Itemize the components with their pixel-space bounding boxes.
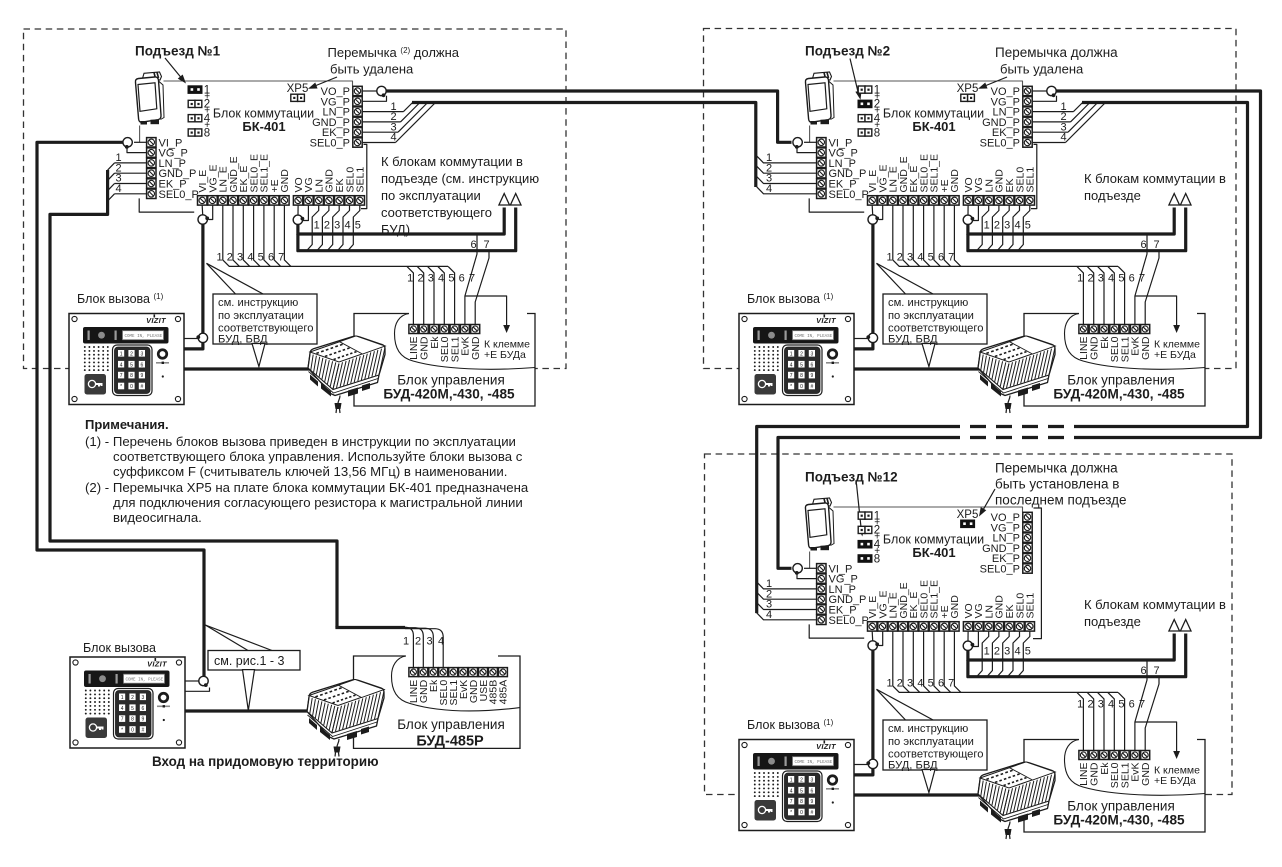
svg-text:4: 4 [766,609,772,621]
svg-text:5: 5 [1118,273,1124,285]
svg-text:SEL0_P: SEL0_P [980,564,1020,576]
node coax at call panel entrance 2 [854,333,878,342]
svg-text:5: 5 [258,252,264,264]
svg-text:6: 6 [470,239,476,251]
wire video trunk entrance2-to-entrance12 with break [1052,91,1261,438]
svg-text:быть удалена: быть удалена [330,62,414,77]
svg-text:по эксплуатации: по эксплуатации [888,736,974,748]
callout see-instruction entrance 2 [877,263,988,366]
svg-text:5: 5 [928,678,934,690]
wire 6 BUD EvK to riser entrance 12 [1135,660,1147,751]
jumper J4 entrance 2 (open) [858,115,872,122]
svg-text:Блок управления: Блок управления [397,373,505,388]
svg-text:4: 4 [247,252,253,264]
svg-text:ХР5: ХР5 [287,83,309,95]
node coax VI_E entrance 2 [868,206,883,225]
svg-text:+Е БУДа: +Е БУДа [484,349,526,361]
svg-text:по эксплуатации: по эксплуатации [381,188,481,203]
svg-text:SEL0_P: SEL0_P [159,189,199,201]
svg-text:5: 5 [448,273,454,285]
arrow riser video entrance 2 [1169,194,1180,206]
svg-text:3: 3 [334,219,340,231]
svg-text:1: 1 [217,252,223,264]
jumper J1 entrance 2 (open) [858,86,872,93]
terminal strip E entrance 12 [867,580,961,631]
node coax VI_P entrance 2 [793,138,816,153]
svg-text:ХР5: ХР5 [957,83,979,95]
svg-text:4: 4 [917,252,923,264]
box BUD-420M entrance 1 [354,314,535,407]
svg-text:Блок управления: Блок управления [397,717,505,732]
wires into BUD terminals entrance 1 [407,266,475,324]
svg-text:SEL0_P: SEL0_P [310,138,350,150]
svg-text:+Е БУДа: +Е БУДа [1154,349,1196,361]
svg-text:БУД-485Р: БУД-485Р [416,734,484,750]
svg-text:4: 4 [1014,219,1020,231]
svg-text:GND: GND [470,336,482,360]
terminal strip floors-out entrance 2 [963,167,1037,205]
svg-text:Перемычка (2) должна: Перемычка (2) должна [328,45,460,60]
svg-text:1: 1 [984,645,990,657]
svg-text:2: 2 [897,252,903,264]
arrow Podezd-to-jumper entrance 12 [857,484,862,532]
svg-text:GND: GND [949,595,961,619]
bracket strip link left entrance 12 [809,624,864,638]
wire camera down-lead entrance 2 [809,126,811,143]
callout see-instruction entrance 1 [207,263,318,366]
svg-text:3: 3 [1098,699,1104,711]
svg-text:2: 2 [417,273,423,285]
svg-text:4: 4 [438,636,444,648]
svg-text:по эксплуатации: по эксплуатации [888,310,974,322]
svg-text:подъезде: подъезде [1084,614,1141,629]
wire bus horizontal to BUD-485P [335,626,405,629]
svg-text:1: 1 [407,273,413,285]
wire camera down-lead entrance 1 [139,126,141,143]
svg-text:485A: 485A [498,680,510,705]
call panel (blok vyzova) entrance 2 [739,314,854,405]
svg-text:3: 3 [907,678,913,690]
jumper J1 entrance 12 (open) [858,512,872,519]
svg-text:БК-401: БК-401 [912,545,955,560]
jumper XP5 entrance 1 (open) [291,94,305,101]
svg-text:К блокам коммутации в: К блокам коммутации в [1084,171,1226,186]
svg-text:2: 2 [994,219,1000,231]
wire strip-E node to call panel entrance 2 [854,224,873,349]
svg-text:БУД-420М,-430, -485: БУД-420М,-430, -485 [383,387,515,402]
wires 1-5 floors bus entrance 2 [977,206,1031,251]
terminal strip BUD entrance 12 [1078,751,1152,789]
node coax at street call panel [185,676,210,691]
wire bus trunk entrance2-to-entrance12 with break [1082,103,1248,427]
svg-text:7: 7 [483,239,489,251]
svg-text:4: 4 [438,273,444,285]
svg-text:+Е БУДа: +Е БУДа [1154,775,1196,787]
wire camera-to-VO_P entrance 2 [834,81,1023,86]
wire call-panel to BUD entrance 12 [854,793,1000,796]
video camera entrance 2 [805,72,834,125]
wires 1-7 strip-E to BUD entrance 12 [887,632,1118,693]
svg-text:БУД, БВД: БУД, БВД [888,759,938,771]
jumper J4 entrance 1 (open) [188,115,202,122]
svg-text:SEL0_P: SEL0_P [980,138,1020,150]
svg-text:6: 6 [938,252,944,264]
video camera entrance 12 [805,498,834,551]
wires into BUD terminals entrance 12 [1077,692,1145,750]
svg-text:5: 5 [1025,219,1031,231]
node coax VO entrance 12 [963,632,978,651]
callout see-fig-1-3 [205,625,300,711]
node coax VI_P entrance 1 [123,138,146,153]
bracket strip link left entrance 1 [139,198,194,212]
terminal strip P-out entrance 2 [980,86,1033,150]
jumper J8 entrance 1 (open) [188,129,202,136]
wire call-panel to BUD entrance 2 [854,367,1000,370]
wire strip-E node to call panel entrance 1 [184,224,203,349]
svg-text:Блок управления: Блок управления [1067,373,1175,388]
wire riser video bus to arrows entrance 2 [968,208,1174,235]
node coax at call panel entrance 1 [184,333,208,342]
wire camera down-lead entrance 12 [809,552,811,569]
svg-text:3: 3 [1004,219,1010,231]
wire bus LN/GND/EK/SEL0 trunk entrance1-to-entrance2 [412,103,756,188]
svg-text:6: 6 [1140,665,1146,677]
node coax VI_E entrance 12 [868,632,883,651]
svg-text:4: 4 [1108,273,1114,285]
svg-text:соответствующего: соответствующего [381,205,492,220]
svg-text:6: 6 [1129,699,1135,711]
call panel (blok vyzova) entrance 1 [69,314,184,405]
power unit BUD-485P [307,680,384,757]
svg-text:5: 5 [928,252,934,264]
svg-text:5: 5 [1118,699,1124,711]
svg-text:7: 7 [278,252,284,264]
svg-text:7: 7 [1153,665,1159,677]
svg-text:1: 1 [403,636,409,648]
svg-text:Блок вызова (1): Блок вызова (1) [747,718,834,732]
terminal strip E entrance 1 [197,154,291,205]
svg-text:видеосигнала.: видеосигнала. [113,510,202,525]
svg-text:7: 7 [948,252,954,264]
wire 6 BUD EvK to riser entrance 2 [1135,234,1147,325]
wire bus trunk entrance1-to-BUD485P [50,170,337,628]
wire riser video bus to arrows entrance 12 [968,634,1174,661]
svg-text:по эксплуатации: по эксплуатации [218,310,304,322]
jumper J2 entrance 1 (open) [188,100,202,107]
svg-text:4: 4 [766,183,772,195]
svg-text:1: 1 [314,219,320,231]
svg-text:6: 6 [1129,273,1135,285]
svg-text:К блокам коммутации в: К блокам коммутации в [1084,597,1226,612]
power unit BUD entrance 1 [308,336,385,413]
svg-text:Вход на придомовую территорию: Вход на придомовую территорию [152,754,379,769]
svg-text:1: 1 [1077,699,1083,711]
wire street panel to BUD-485P [185,709,330,712]
svg-text:подъезде (см. инструкцию: подъезде (см. инструкцию [381,171,539,186]
node coax VO entrance 2 [963,206,978,225]
svg-text:Примечания.: Примечания. [85,417,169,432]
wires 1-4 into P-in strip entrance 2 [757,152,816,195]
svg-text:8: 8 [204,127,210,139]
wires 1-4 out of P-out strip entrance 2 [1033,101,1106,144]
wire 6 BUD EvK to riser entrance 1 [465,234,477,325]
svg-text:7: 7 [1153,239,1159,251]
wire riser multiwire bus to arrows entrance 1 [298,208,516,251]
wire 7 BUD GND to riser entrance 2 [1145,251,1159,325]
svg-text:SEL0_P: SEL0_P [829,615,869,627]
svg-text:3: 3 [1004,645,1010,657]
svg-text:4: 4 [116,183,122,195]
wire video trunk entrance1-to-entrance2 (VO_P to VI_P) [382,91,792,142]
node coax VO_P entrance 1 [363,86,387,101]
svg-text:суффиксом F (считыватель ключе: суффиксом F (считыватель ключей 13,56 МГ… [113,464,507,479]
svg-text:1: 1 [1077,273,1083,285]
svg-text:быть установлена в: быть установлена в [995,477,1119,492]
jumper J1 entrance 1 (closed) [188,85,203,94]
wire 7 BUD GND to riser entrance 1 [475,251,489,325]
svg-text:4: 4 [1060,132,1066,144]
call panel (blok vyzova) entrance 12 [739,740,854,831]
wire riser video bus to arrows entrance 1 [298,208,504,235]
svg-text:Блок вызова: Блок вызова [83,641,156,655]
svg-text:6: 6 [268,252,274,264]
svg-text:Блок управления: Блок управления [1067,799,1175,814]
terminal strip floors-out entrance 12 [963,593,1037,631]
wires 1-5 floors bus entrance 1 [307,206,361,251]
jumper J4 entrance 12 (closed) [858,540,873,549]
box BUD-420M entrance 12 [1024,740,1205,833]
svg-text:GND: GND [1140,336,1152,360]
svg-text:К блокам коммутации в: К блокам коммутации в [381,154,523,169]
svg-text:2: 2 [415,636,421,648]
wire camera-to-VO_P entrance 12 [834,507,1023,512]
svg-text:SEL1: SEL1 [355,167,367,193]
terminal strip BUD entrance 2 [1078,325,1152,363]
svg-text:2: 2 [1087,273,1093,285]
box BUD-485P [354,656,521,748]
jumper XP5 entrance 2 (open) [961,94,975,101]
svg-text:1: 1 [984,219,990,231]
svg-text:2: 2 [324,219,330,231]
terminal strip floors-out entrance 1 [293,167,367,205]
svg-text:4: 4 [1014,645,1020,657]
wires into BUD terminals entrance 2 [1077,266,1145,324]
wire riser multiwire bus to arrows entrance 12 [968,634,1186,677]
svg-text:8: 8 [874,127,880,139]
box BUD-420M entrance 2 [1024,314,1205,407]
svg-text:БК-401: БК-401 [242,119,285,134]
terminal strip P-out entrance 12 [980,512,1033,576]
svg-text:ХР5: ХР5 [957,509,979,521]
wire camera-to-VO_P entrance 1 [164,81,353,86]
svg-text:Перемычка должна: Перемычка должна [995,461,1118,476]
svg-text:4: 4 [390,132,396,144]
svg-text:6: 6 [1140,239,1146,251]
arrow riser multiwire entrance 2 [1180,194,1191,206]
jumper J8 entrance 2 (open) [858,129,872,136]
power unit BUD entrance 2 [978,336,1055,413]
svg-text:см. инструкцию: см. инструкцию [218,297,298,309]
svg-text:соответствующего блока управле: соответствующего блока управления. Испол… [113,449,523,464]
terminal strip E entrance 2 [867,154,961,205]
terminal strip P-in entrance 2 [817,137,869,201]
svg-text:Подъезд №1: Подъезд №1 [135,44,221,59]
svg-text:7: 7 [948,678,954,690]
entrance 2 dashed boundary box [704,29,1237,369]
svg-text:SEL1: SEL1 [1025,167,1037,193]
svg-text:5: 5 [1025,645,1031,657]
svg-text:(2) - Перемычка ХР5 на плате б: (2) - Перемычка ХР5 на плате блока комму… [85,480,529,495]
terminal strip BUD-485P [408,668,510,706]
svg-text:2: 2 [227,252,233,264]
svg-text:6: 6 [459,273,465,285]
svg-text:см. инструкцию: см. инструкцию [888,723,968,735]
node coax VO entrance 1 [293,206,308,225]
svg-text:3: 3 [428,273,434,285]
video camera entrance 1 [135,72,164,125]
terminal strip P-in entrance 12 [817,563,869,627]
wire to +E clamp entrance 2 [1135,296,1177,326]
arrow riser multiwire entrance 1 [510,194,521,206]
arrow riser multiwire entrance 12 [1180,620,1191,632]
wires 1-5 floors bus entrance 12 [977,632,1031,677]
wire call-panel to BUD entrance 1 [184,367,330,370]
bracket strip link left entrance 2 [809,198,864,212]
wire to +E clamp entrance 1 [465,296,507,326]
wires 1-7 strip-E to BUD entrance 1 [217,206,448,267]
svg-text:БУД, БВД: БУД, БВД [218,333,268,345]
arrow riser video entrance 12 [1169,620,1180,632]
svg-text:последнем подъезде: последнем подъезде [995,493,1127,508]
svg-text:подъезде: подъезде [1084,188,1141,203]
power unit BUD entrance 12 [978,762,1055,839]
street call panel (blok vyzova) [70,657,185,748]
svg-text:см. рис.1 - 3: см. рис.1 - 3 [214,654,285,668]
wires 1-4 into BUD-485P strip [403,627,444,667]
svg-text:БУД-420М,-430, -485: БУД-420М,-430, -485 [1053,813,1185,828]
svg-text:Блок вызова (1): Блок вызова (1) [747,292,834,306]
wire strip-E node to call panel entrance 12 [854,650,873,775]
svg-text:GND: GND [1140,762,1152,786]
svg-text:3: 3 [426,636,432,648]
wires 1-7 strip-E to BUD entrance 2 [887,206,1118,267]
bracket strip link right entrance 12 [1033,508,1041,639]
wire to +E clamp entrance 12 [1135,722,1177,752]
svg-text:2: 2 [1087,699,1093,711]
jumper J8 entrance 12 (closed) [858,554,873,563]
jumper J2 entrance 2 (closed) [858,100,873,109]
wires 1-4 into P-in strip entrance 1 [108,152,146,201]
svg-text:6: 6 [938,678,944,690]
svg-text:БК-401: БК-401 [912,119,955,134]
svg-text:Подъезд №12: Подъезд №12 [805,470,898,485]
arrow Podezd-to-jumper entrance 1 [165,58,184,81]
svg-text:см. инструкцию: см. инструкцию [888,297,968,309]
svg-text:GND: GND [949,169,961,193]
svg-text:(1) - Перечень блоков вызова п: (1) - Перечень блоков вызова приведен в … [85,434,516,449]
node coax VO_P entrance 2 [1033,86,1057,101]
svg-text:1: 1 [887,678,893,690]
svg-text:быть удалена: быть удалена [1000,62,1084,77]
svg-text:5: 5 [355,219,361,231]
svg-text:БУД-420М,-430, -485: БУД-420М,-430, -485 [1053,387,1185,402]
entrance 12 dashed boundary box [705,454,1233,795]
svg-text:GND: GND [279,169,291,193]
svg-text:1: 1 [887,252,893,264]
wires 1-4 into P-in strip entrance 12 [757,578,816,621]
svg-text:БУД): БУД) [381,222,410,237]
svg-text:4: 4 [1108,699,1114,711]
terminal strip P-in entrance 1 [147,137,199,201]
svg-text:БУД, БВД: БУД, БВД [888,333,938,345]
node coax at call panel entrance 12 [854,759,878,768]
jumper XP5 entrance 12 (installed) [960,520,975,529]
svg-text:3: 3 [237,252,243,264]
svg-text:для подключения согласующего р: для подключения согласующего резистора к… [113,495,523,510]
wire riser multiwire bus to arrows entrance 2 [968,208,1186,251]
svg-text:SEL0_P: SEL0_P [829,189,869,201]
entrance 1 dashed boundary box [24,29,567,369]
node coax VI_P entrance 12 [793,564,816,579]
svg-text:2: 2 [897,678,903,690]
svg-text:4: 4 [344,219,350,231]
svg-text:3: 3 [907,252,913,264]
svg-text:Перемычка должна: Перемычка должна [995,45,1118,60]
svg-text:SEL1: SEL1 [1025,593,1037,619]
callout see-instruction entrance 12 [877,689,988,792]
wire video trunk entrance1-to-street-panel [37,142,204,676]
wires 1-4 out of P-out strip entrance 1 [363,101,436,144]
terminal strip P-out entrance 1 [310,86,363,150]
node coax VI_E entrance 1 [198,206,213,225]
jumper J2 entrance 12 (open) [858,526,872,533]
wire 7 BUD GND to riser entrance 12 [1145,677,1159,751]
svg-text:Блок вызова (1): Блок вызова (1) [77,292,164,306]
arrow riser video entrance 1 [499,194,510,206]
svg-text:2: 2 [994,645,1000,657]
svg-text:Подъезд №2: Подъезд №2 [805,44,890,59]
arrow Podezd-to-jumper entrance 2 [850,59,859,97]
bracket strip link right entrance 1 [361,144,367,208]
svg-text:3: 3 [1098,273,1104,285]
svg-text:4: 4 [917,678,923,690]
svg-text:8: 8 [874,553,880,565]
terminal strip BUD entrance 1 [408,325,482,363]
bracket strip link right entrance 2 [1031,144,1037,208]
